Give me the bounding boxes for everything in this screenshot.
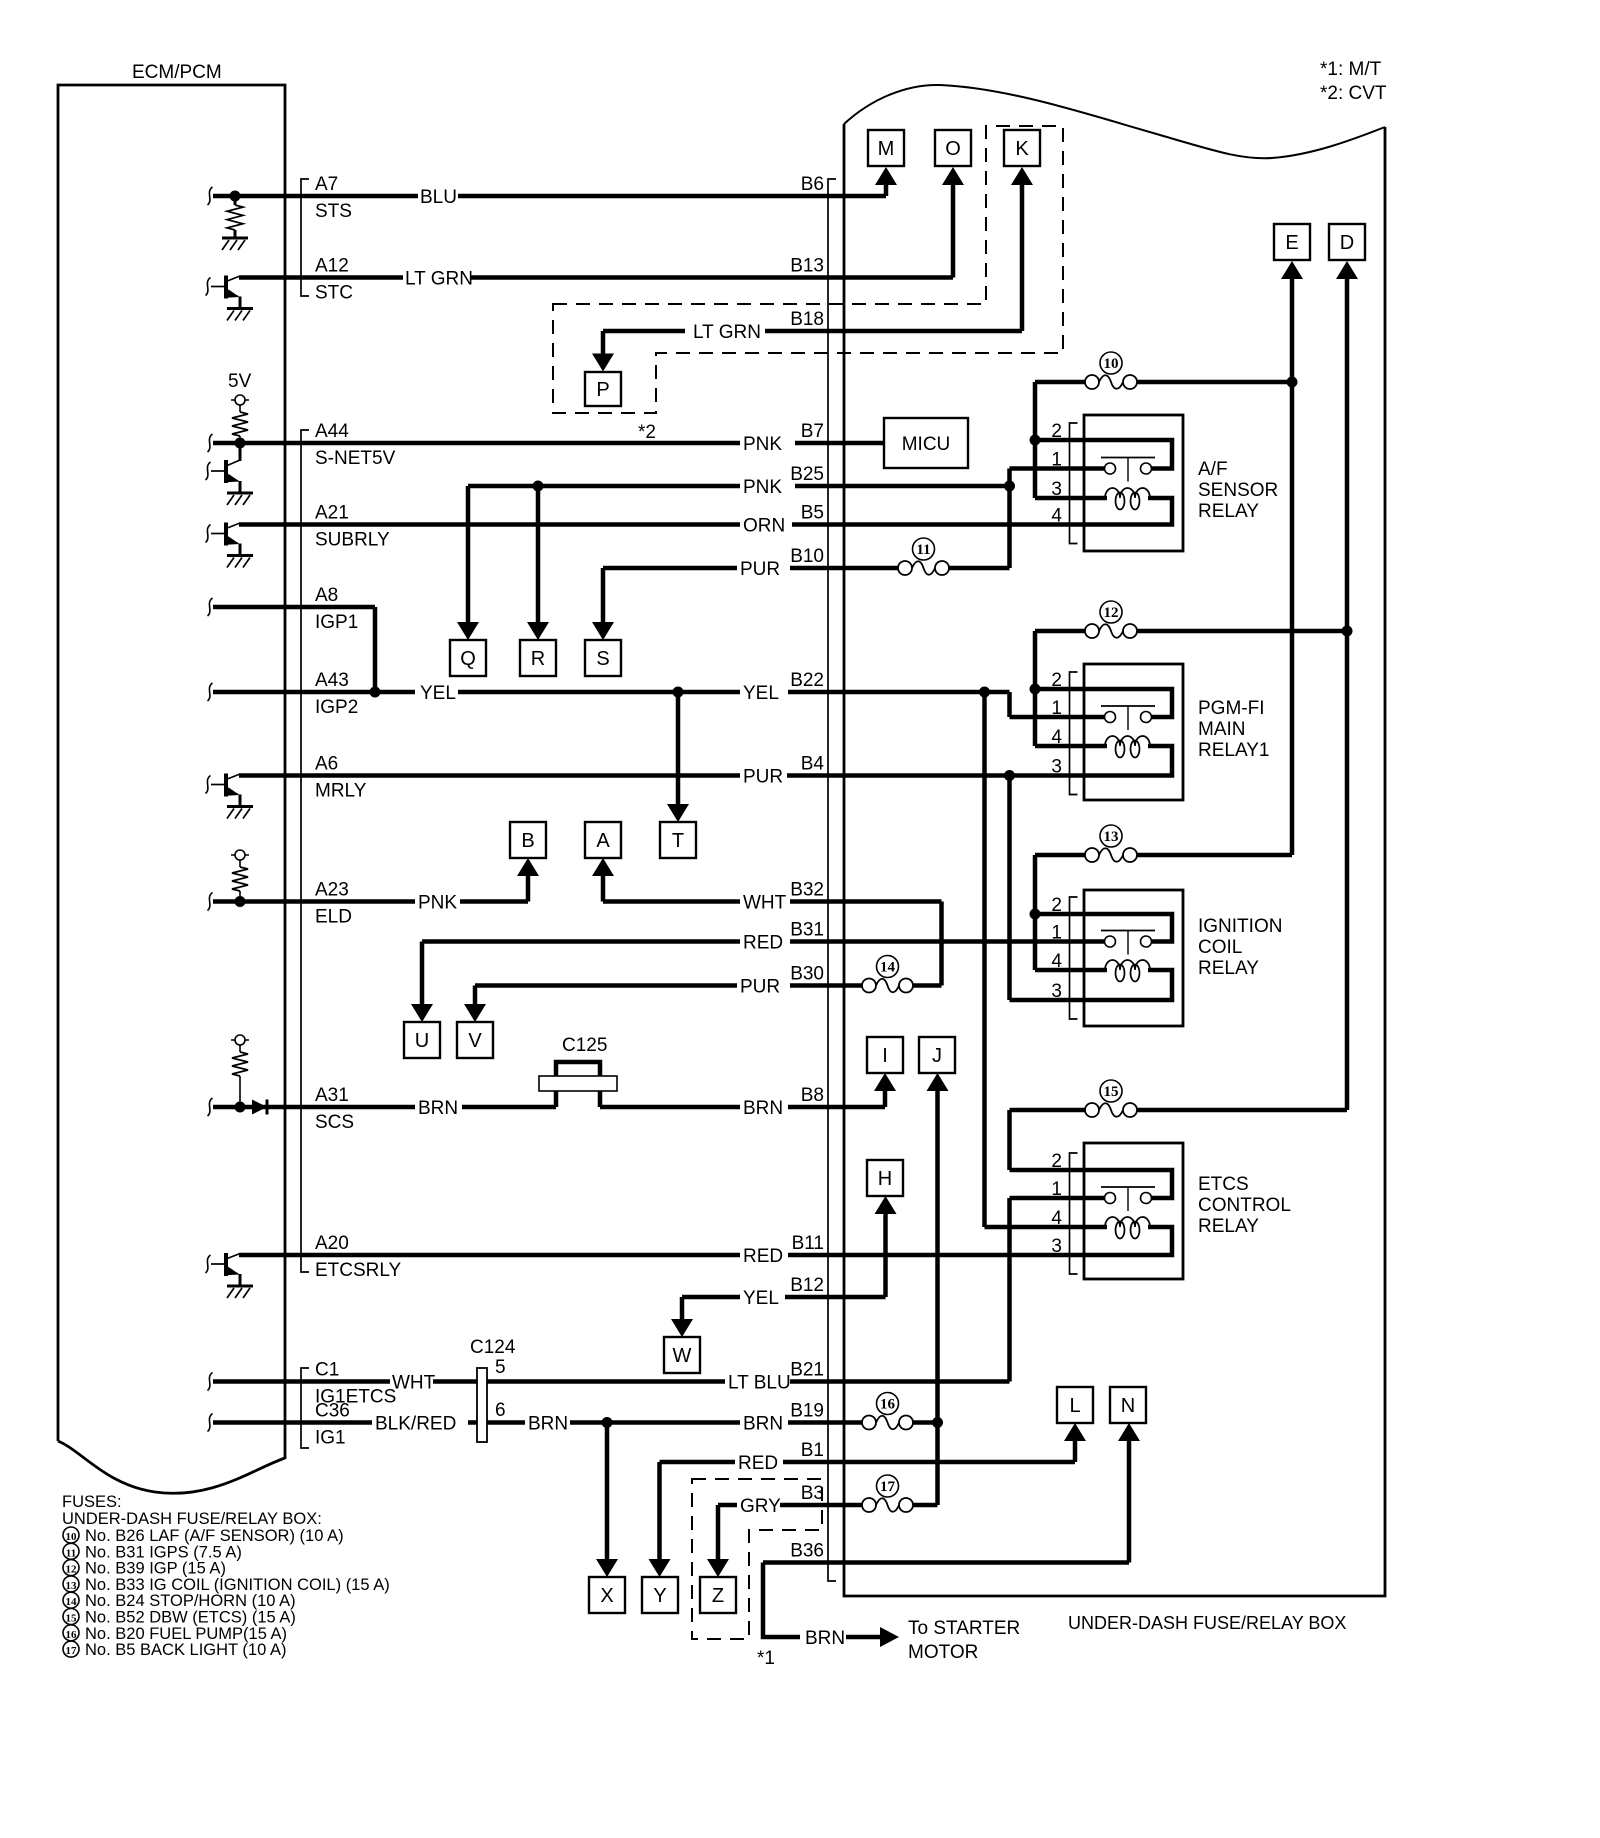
svg-text:BLK/RED: BLK/RED	[375, 1414, 456, 1435]
svg-text:3: 3	[1051, 981, 1062, 1002]
transistor at A44	[206, 462, 211, 480]
connector T	[660, 822, 696, 858]
svg-text:WHT: WHT	[743, 893, 787, 914]
svg-text:4: 4	[1051, 727, 1062, 748]
svg-text:4: 4	[1051, 506, 1062, 527]
svg-text:*2: *2	[638, 422, 656, 443]
junction dot B22 to ETCS	[979, 687, 990, 698]
wire C36 BLK/RED BRN to B19	[213, 1420, 372, 1425]
svg-text:No. B33 IG COIL (IGNITION COIL: No. B33 IG COIL (IGNITION COIL) (15 A)	[85, 1576, 390, 1594]
wire connector E down to fuse 13	[1290, 278, 1295, 855]
svg-text:ORN: ORN	[743, 516, 785, 537]
fuse 15	[1010, 1108, 1086, 1113]
svg-text:RED: RED	[743, 1246, 783, 1267]
wire BRN to connector X	[605, 1423, 610, 1561]
wire B22 to PGM-FI relay pin 1	[1007, 692, 1012, 717]
junction dot A8-A43	[370, 687, 381, 698]
transistor at A21 SUBRLY	[206, 525, 211, 543]
relay PGM-FI MAIN RELAY1 contact	[1084, 689, 1172, 717]
relay ETCS CONTROL RELAY pin bracket	[1070, 1153, 1078, 1274]
svg-text:C125: C125	[562, 1035, 607, 1056]
fuse legend item 11	[63, 1543, 79, 1559]
wire A21 ORN to B5	[239, 522, 740, 527]
svg-text:PUR: PUR	[743, 767, 783, 788]
connector C125 bridge	[556, 1062, 600, 1107]
wire to ignition coil relay pin 2	[1035, 912, 1084, 917]
svg-text:B: B	[521, 830, 534, 852]
svg-text:5: 5	[495, 1357, 506, 1378]
wire A8 IGP1	[213, 605, 375, 610]
svg-text:B25: B25	[790, 464, 824, 485]
connector M	[868, 130, 904, 166]
junction dot fuse16 J	[932, 1417, 943, 1428]
svg-text:No. B24 STOP/HORN (10 A): No. B24 STOP/HORN (10 A)	[85, 1592, 296, 1610]
svg-text:15: 15	[1104, 1084, 1119, 1100]
svg-text:J: J	[932, 1045, 942, 1067]
wire fuse 13 down to ignition coil relay pins	[1033, 855, 1038, 970]
svg-text:A6: A6	[315, 754, 338, 775]
svg-text:10: 10	[1104, 356, 1119, 372]
svg-text:2: 2	[1051, 421, 1062, 442]
svg-text:1: 1	[1051, 450, 1062, 471]
svg-text:RELAY: RELAY	[1198, 958, 1259, 979]
svg-text:C36: C36	[315, 1401, 350, 1422]
wire C1 WHT to B21 LT BLU	[213, 1379, 390, 1384]
svg-text:RELAY: RELAY	[1198, 501, 1259, 522]
MICU box	[884, 418, 968, 468]
under-dash fuse/relay box	[844, 124, 1385, 1596]
wire B32 WHT from connector A	[601, 875, 606, 902]
svg-text:IG1: IG1	[315, 1428, 346, 1449]
svg-text:Q: Q	[460, 648, 476, 670]
connector R	[520, 640, 556, 676]
svg-text:ETCSRLY: ETCSRLY	[315, 1260, 402, 1281]
pin C1 IG1ETCS stub	[208, 1373, 213, 1391]
svg-text:WHT: WHT	[392, 1373, 436, 1394]
wire fuse 12 down to PGM-FI relay pins	[1033, 631, 1038, 746]
wire B36 up to connector N	[1127, 1440, 1132, 1563]
svg-text:T: T	[672, 830, 684, 852]
svg-text:6: 6	[495, 1400, 506, 1421]
wire fuse 10 down to A/F relay pins	[1033, 382, 1038, 498]
pin A7 STS stub	[208, 187, 213, 205]
wire B12 YEL	[682, 1295, 740, 1300]
svg-text:LT BLU: LT BLU	[728, 1373, 791, 1394]
wire B12 to connector H	[883, 1213, 888, 1297]
wire B22 to connector T	[676, 692, 681, 805]
svg-text:CONTROL: CONTROL	[1198, 1195, 1291, 1216]
svg-text:S-NET5V: S-NET5V	[315, 448, 396, 469]
fuse 10	[1035, 380, 1085, 385]
junction dot D fuse 12	[1342, 626, 1353, 637]
svg-text:No. B5 BACK LIGHT (10 A): No. B5 BACK LIGHT (10 A)	[85, 1641, 286, 1659]
junction dot E fuse 10	[1287, 377, 1298, 388]
relay A/F SENSOR RELAY coil wiring	[1084, 496, 1107, 501]
wire A6 PUR to B4	[239, 773, 740, 778]
svg-text:IGP2: IGP2	[315, 697, 358, 718]
pin A43 IGP2 stub	[208, 683, 213, 701]
svg-text:B5: B5	[801, 503, 824, 524]
svg-text:A/F: A/F	[1198, 459, 1228, 480]
connector S	[585, 640, 621, 676]
svg-text:C1: C1	[315, 1360, 339, 1381]
svg-text:B6: B6	[801, 174, 824, 195]
connector P	[585, 372, 621, 406]
pullup resistor at A31	[231, 1039, 249, 1041]
connector A	[585, 822, 621, 858]
wire B22 down to ETCS relay pin 4	[982, 692, 987, 1227]
svg-text:2: 2	[1051, 895, 1062, 916]
wire A44 PNK to B7 MICU	[213, 441, 740, 446]
transistor at A12 STC	[206, 278, 211, 296]
wire A23 PNK to connector B	[213, 899, 415, 904]
connector K	[1004, 130, 1040, 166]
svg-text:11: 11	[66, 1547, 76, 1559]
fuse legend item 10	[63, 1527, 79, 1543]
fuse legend item 12	[63, 1560, 79, 1576]
svg-text:*1: M/T: *1: M/T	[1320, 59, 1382, 80]
svg-text:A43: A43	[315, 670, 349, 691]
svg-text:2: 2	[1051, 1151, 1062, 1172]
junction dot PGM-FI pin 2	[1030, 684, 1041, 695]
svg-text:B22: B22	[790, 670, 824, 691]
connector U	[404, 1022, 440, 1058]
svg-text:L: L	[1069, 1395, 1080, 1417]
transistor at A6 MRLY	[206, 776, 211, 794]
svg-text:*1: *1	[757, 1648, 775, 1669]
svg-text:D: D	[1340, 232, 1354, 254]
svg-text:B36: B36	[790, 1541, 824, 1562]
svg-text:B4: B4	[801, 754, 825, 775]
junction dot B4	[1004, 770, 1015, 781]
svg-text:B21: B21	[790, 1360, 824, 1381]
svg-text:MRLY: MRLY	[315, 781, 367, 802]
relay IGNITION COIL RELAY coil	[1105, 960, 1150, 970]
svg-text:B12: B12	[790, 1275, 824, 1296]
svg-text:MICU: MICU	[902, 434, 951, 455]
pin A44 stub	[208, 434, 213, 452]
svg-text:Z: Z	[712, 1585, 724, 1607]
svg-text:UNDER-DASH FUSE/RELAY BOX:: UNDER-DASH FUSE/RELAY BOX:	[62, 1510, 322, 1528]
svg-text:ELD: ELD	[315, 907, 352, 928]
svg-text:12: 12	[66, 1564, 78, 1576]
wire B25 PNK	[468, 484, 740, 489]
svg-text:A8: A8	[315, 585, 338, 606]
svg-text:I: I	[882, 1045, 888, 1067]
connector D	[1329, 224, 1365, 260]
svg-text:W: W	[673, 1345, 692, 1367]
fuse 16	[860, 1420, 865, 1425]
svg-text:MOTOR: MOTOR	[908, 1642, 978, 1663]
wire B3 to connector Z	[716, 1505, 721, 1560]
svg-text:LT GRN: LT GRN	[693, 322, 761, 343]
connector Z	[700, 1577, 736, 1613]
wire B36 to connector N	[763, 1560, 1129, 1565]
svg-text:A23: A23	[315, 880, 349, 901]
wire B32 down to fuse 14	[939, 902, 944, 986]
wire fuse 16 up to connector J	[935, 1090, 940, 1423]
wire B10 to connector S	[601, 568, 606, 623]
relay ETCS CONTROL RELAY contact	[1084, 1170, 1172, 1198]
svg-text:N: N	[1121, 1395, 1135, 1417]
wire A20 RED to B11 ETCS relay pin 3	[239, 1253, 740, 1258]
svg-text:B7: B7	[801, 421, 824, 442]
wire connector D down to fuse 15	[1345, 278, 1350, 1110]
relay IGNITION COIL RELAY pin bracket	[1070, 897, 1078, 1019]
svg-text:B8: B8	[801, 1085, 824, 1106]
svg-text:PNK: PNK	[418, 893, 457, 914]
svg-text:RELAY1: RELAY1	[1198, 740, 1269, 761]
fuse legend item 13	[63, 1576, 79, 1592]
relay PGM-FI MAIN RELAY1 coil wiring	[1084, 744, 1107, 749]
svg-text:MAIN: MAIN	[1198, 719, 1246, 740]
svg-text:BRN: BRN	[805, 1628, 845, 1649]
svg-text:PNK: PNK	[743, 477, 782, 498]
wire A12 LT GRN to B13	[239, 275, 403, 280]
connector C124	[477, 1368, 487, 1442]
connector X	[589, 1577, 625, 1613]
relay PGM-FI MAIN RELAY1 pin bracket	[1070, 672, 1078, 795]
svg-text:UNDER-DASH FUSE/RELAY BOX: UNDER-DASH FUSE/RELAY BOX	[1068, 1613, 1346, 1633]
wire fuse 11 up to A/F relay pin 1	[1007, 469, 1012, 569]
svg-text:GRY: GRY	[740, 1496, 781, 1517]
relay A/F SENSOR RELAY coil	[1105, 488, 1150, 498]
relay ETCS CONTROL RELAY coil wiring	[1084, 1225, 1107, 1230]
svg-text:15: 15	[66, 1613, 78, 1625]
wire A43 YEL to B22	[213, 690, 415, 695]
wire B25 to connector R	[536, 486, 541, 623]
svg-text:B1: B1	[801, 1440, 824, 1461]
svg-text:COIL: COIL	[1198, 937, 1242, 958]
junction dot B25-R	[533, 481, 544, 492]
junction dot C36 to X	[602, 1417, 613, 1428]
wire A7 BLU to B6	[213, 194, 418, 199]
ground at A7	[222, 237, 248, 240]
relay ETCS CONTROL RELAY coil	[1105, 1217, 1150, 1227]
svg-text:No. B52 DBW (ETCS) (15 A): No. B52 DBW (ETCS) (15 A)	[85, 1609, 296, 1627]
svg-text:B13: B13	[790, 256, 824, 277]
svg-text:1: 1	[1051, 698, 1062, 719]
relay A/F SENSOR RELAY pin bracket	[1070, 423, 1078, 544]
svg-text:RELAY: RELAY	[1198, 1216, 1259, 1237]
svg-text:X: X	[600, 1585, 613, 1607]
wire B3 GRY through fuse 17	[718, 1503, 737, 1508]
svg-text:No. B39 IGP (15 A): No. B39 IGP (15 A)	[85, 1560, 226, 1578]
wire fuse 16 down to fuse 17	[935, 1423, 940, 1506]
svg-text:RED: RED	[738, 1453, 778, 1474]
svg-text:PUR: PUR	[740, 977, 780, 998]
connector L	[1057, 1387, 1093, 1423]
svg-text:A44: A44	[315, 421, 349, 442]
connector W	[664, 1337, 700, 1373]
svg-text:11: 11	[916, 542, 930, 558]
ECM connector bracket C1-C36	[301, 1368, 309, 1448]
relay A/F SENSOR RELAY box	[1084, 415, 1183, 551]
svg-text:14: 14	[880, 960, 896, 976]
dashed option region *1 around Z	[692, 1479, 822, 1639]
ECM connector bracket A44-A20	[301, 430, 309, 1272]
svg-text:BRN: BRN	[743, 1098, 783, 1119]
junction dot A/F pin 2	[1030, 435, 1041, 446]
junction dot B22 to T	[673, 687, 684, 698]
resistor at A7	[230, 191, 241, 202]
svg-text:STS: STS	[315, 201, 352, 222]
svg-text:16: 16	[66, 1629, 78, 1641]
relay IGNITION COIL RELAY contact	[1084, 914, 1172, 942]
wire B13 to connector O	[951, 184, 956, 278]
svg-text:10: 10	[66, 1531, 78, 1543]
relay A/F SENSOR RELAY contact	[1084, 440, 1172, 469]
wire B31 to connector U	[420, 942, 425, 1006]
svg-text:A: A	[596, 830, 610, 852]
svg-text:5V: 5V	[228, 371, 252, 392]
svg-text:ETCS: ETCS	[1198, 1174, 1249, 1195]
svg-text:ECM/PCM: ECM/PCM	[132, 62, 222, 83]
svg-text:SENSOR: SENSOR	[1198, 480, 1278, 501]
svg-text:P: P	[596, 379, 609, 401]
svg-text:17: 17	[880, 1479, 896, 1495]
svg-text:RED: RED	[743, 933, 783, 954]
wire B8 to connector I	[883, 1090, 888, 1107]
ECM connector bracket A7-A12	[301, 179, 309, 296]
svg-text:SUBRLY: SUBRLY	[315, 530, 390, 551]
svg-text:YEL: YEL	[743, 1288, 779, 1309]
svg-text:S: S	[596, 648, 609, 670]
diode at A31	[252, 1100, 267, 1115]
svg-text:4: 4	[1051, 1208, 1062, 1229]
svg-text:*2: CVT: *2: CVT	[1320, 83, 1387, 104]
svg-text:4: 4	[1051, 951, 1062, 972]
fuse box connector bracket B6-B36	[828, 179, 836, 1581]
fuse 11	[790, 566, 898, 571]
connector O	[935, 130, 971, 166]
wire A31 BRN to B8	[213, 1105, 415, 1110]
svg-text:BRN: BRN	[418, 1098, 458, 1119]
fuse 13	[1035, 853, 1085, 858]
wire fuse 15 down to ETCS relay pin 2	[1007, 1110, 1012, 1170]
ECM/PCM box	[58, 85, 285, 1459]
junction dot A23	[235, 896, 246, 907]
svg-text:V: V	[468, 1030, 482, 1052]
svg-text:U: U	[415, 1030, 429, 1052]
svg-text:To STARTER: To STARTER	[908, 1618, 1020, 1639]
pin A8 IGP1 stub	[208, 598, 213, 616]
connector E	[1274, 224, 1310, 260]
svg-text:B31: B31	[790, 920, 824, 941]
svg-text:IGNITION: IGNITION	[1198, 916, 1282, 937]
svg-text:LT GRN: LT GRN	[405, 269, 473, 290]
svg-text:B11: B11	[792, 1233, 824, 1254]
svg-text:O: O	[945, 138, 961, 160]
svg-text:3: 3	[1051, 479, 1062, 500]
wire B25 to connector Q	[466, 486, 471, 623]
svg-text:STC: STC	[315, 283, 353, 304]
connector N	[1110, 1387, 1146, 1423]
svg-text:13: 13	[66, 1580, 78, 1592]
connector Q	[450, 640, 486, 676]
wire B30 PUR through fuse 14	[475, 983, 737, 988]
svg-text:No. B31 IGPS (7.5 A): No. B31 IGPS (7.5 A)	[85, 1543, 242, 1561]
wire B36 BRN to starter motor	[763, 1563, 800, 1638]
svg-text:17: 17	[66, 1645, 78, 1657]
svg-text:PNK: PNK	[743, 434, 782, 455]
wire B30 to connector V	[473, 986, 478, 1006]
svg-text:IGP1: IGP1	[315, 612, 358, 633]
svg-text:K: K	[1015, 138, 1029, 160]
svg-text:12: 12	[1104, 605, 1119, 621]
wire B31 RED to ignition coil relay pin 1	[422, 939, 740, 944]
transistor at A20 ETCSRLY	[206, 1255, 211, 1273]
pin C36 IG1 stub	[208, 1414, 213, 1432]
svg-text:A20: A20	[315, 1233, 349, 1254]
wire B18 to connector K	[1020, 184, 1025, 331]
wire B12 to connector W	[680, 1297, 685, 1320]
svg-text:A12: A12	[315, 256, 349, 277]
fuse 14	[790, 983, 862, 988]
wire to PGM-FI relay pin 2	[1035, 687, 1084, 692]
relay IGNITION COIL RELAY coil wiring	[1084, 968, 1107, 973]
svg-text:1: 1	[1051, 1179, 1062, 1200]
junction dot A44	[235, 438, 246, 449]
svg-text:PGM-FI: PGM-FI	[1198, 698, 1265, 719]
svg-text:B18: B18	[790, 309, 824, 330]
wire to connector B arrow	[526, 875, 531, 902]
svg-text:A21: A21	[315, 503, 349, 524]
wire B6 to connector M	[884, 184, 889, 196]
pin A23 ELD stub	[208, 893, 213, 911]
fuse 12	[1035, 629, 1085, 634]
fuse legend item 16	[63, 1625, 79, 1641]
svg-text:16: 16	[880, 1397, 896, 1413]
relay ETCS CONTROL RELAY box	[1084, 1143, 1183, 1279]
svg-text:B30: B30	[790, 964, 824, 985]
svg-text:B32: B32	[790, 880, 824, 901]
svg-text:FUSES:: FUSES:	[62, 1493, 122, 1511]
wire B18 to connector P	[601, 331, 606, 354]
connector B	[510, 822, 546, 858]
pin A31 SCS stub	[208, 1098, 213, 1116]
connector Y	[642, 1577, 678, 1613]
arrow to starter motor	[846, 1635, 880, 1640]
relay IGNITION COIL RELAY box	[1084, 890, 1183, 1026]
svg-text:B19: B19	[790, 1401, 824, 1422]
svg-text:M: M	[878, 138, 895, 160]
svg-text:PUR: PUR	[740, 559, 780, 580]
svg-text:No. B20 FUEL PUMP(15 A): No. B20 FUEL PUMP(15 A)	[85, 1625, 287, 1643]
svg-text:E: E	[1285, 232, 1298, 254]
relay PGM-FI MAIN RELAY1 coil	[1105, 736, 1150, 746]
svg-text:A31: A31	[315, 1085, 349, 1106]
connector I	[867, 1037, 903, 1073]
pullup resistor at A23	[231, 854, 249, 856]
connector J	[919, 1037, 955, 1073]
svg-text:SCS: SCS	[315, 1112, 354, 1133]
svg-text:No. B26 LAF (A/F SENSOR) (10 A: No. B26 LAF (A/F SENSOR) (10 A)	[85, 1527, 344, 1545]
wire B21 up to ETCS relay pin 1	[1007, 1198, 1012, 1382]
wire B18 LT GRN	[603, 329, 685, 334]
dashed option region *2 around P and K	[553, 126, 1063, 413]
junction dot ignition coil pin 2	[1030, 909, 1041, 920]
connector H	[867, 1160, 903, 1196]
svg-text:B3: B3	[801, 1483, 824, 1504]
svg-text:BRN: BRN	[528, 1414, 568, 1435]
svg-text:YEL: YEL	[743, 683, 779, 704]
svg-text:13: 13	[1104, 829, 1119, 845]
fuse legend item 15	[63, 1609, 79, 1625]
relay PGM-FI MAIN RELAY1 box	[1084, 664, 1183, 800]
svg-text:1: 1	[1051, 923, 1062, 944]
wire to A/F relay pin 2	[1035, 438, 1084, 443]
